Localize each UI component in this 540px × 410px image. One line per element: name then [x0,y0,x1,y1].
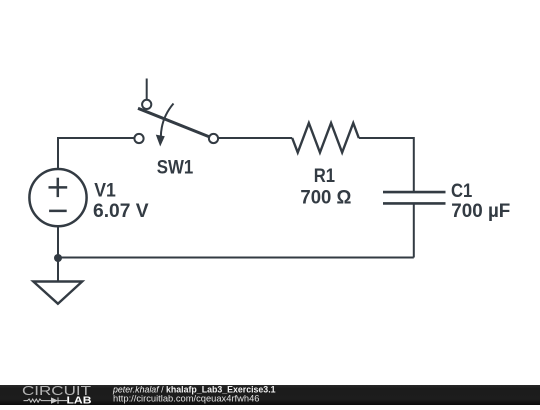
svg-text:R1: R1 [314,165,335,187]
svg-text:6.07 V: 6.07 V [93,200,149,222]
svg-text:700 Ω: 700 Ω [300,186,351,208]
svg-text:V1: V1 [94,180,116,202]
svg-text:C1: C1 [451,180,472,202]
svg-text:LAB: LAB [67,396,92,405]
svg-text:SW1: SW1 [157,156,194,178]
svg-text:http://circuitlab.com/cqeuax4r: http://circuitlab.com/cqeuax4rfwh46 [113,394,259,404]
svg-text:700 µF: 700 µF [451,200,510,222]
